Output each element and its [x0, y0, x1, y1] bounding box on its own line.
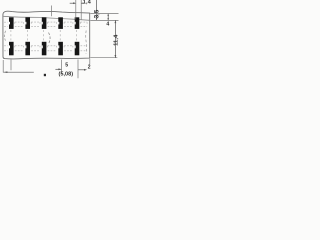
- wire entry P4 bottom (black): [58, 42, 63, 56]
- svg-text:11,4: 11,4: [113, 34, 119, 46]
- svg-text:2: 2: [88, 64, 91, 70]
- hidden cavity dashed box 2-3 bottom: [31, 46, 40, 51]
- svg-text:(5,08): (5,08): [59, 72, 74, 78]
- column centre dashes in gap: [11, 30, 77, 41]
- dim 11,4 line and arrows: [115, 20, 117, 57]
- wire entry P2 bottom (black): [25, 42, 30, 56]
- hidden centre contour arc: [49, 33, 51, 44]
- wire entry P2 top (black): [25, 17, 30, 29]
- hidden cavity dashed box 2-3 top: [31, 22, 40, 27]
- extension line right step: [90, 19, 118, 21]
- extension line right bottom: [90, 57, 117, 59]
- hidden cavity dashed box 1-2 bottom: [15, 46, 24, 51]
- body inner step line: [3, 16, 90, 20]
- hidden left contour arc: [4, 31, 5, 41]
- wire entry P5 bottom (black): [75, 42, 80, 56]
- dim 5,08 extension line pole 5 centre: [77, 60, 79, 79]
- extension line pole 1 centre: [10, 60, 12, 71]
- svg-text:5: 5: [65, 63, 68, 69]
- hidden cavity dashed box 3-4 bottom: [48, 46, 57, 51]
- hidden cavity dashed box 3-4 top: [48, 22, 57, 27]
- wire entry P5 top (black): [75, 17, 80, 29]
- wire entry P3 top (black): [42, 17, 47, 29]
- bottom-left dim line with arrow: [3, 71, 33, 73]
- wire entry P3 bottom (black): [42, 42, 47, 56]
- dim 1,4 extension line left: [75, 0, 77, 20]
- hidden cavity dashed box 4-5 bottom: [64, 46, 73, 51]
- extension line body left edge: [2, 60, 4, 73]
- dim 2 line and arrow: [78, 69, 87, 71]
- svg-text:4: 4: [106, 22, 109, 28]
- wire entry P1 bottom (black): [9, 42, 14, 56]
- wire entry P4 top (black): [58, 17, 63, 29]
- dim 5 (5,08) line and arrows: [55, 68, 61, 70]
- hidden cavity dashed box 1-2 top: [15, 22, 24, 27]
- dim 1,4 line and arrow: [70, 2, 84, 4]
- svg-text:1,4: 1,4: [83, 0, 91, 6]
- small arrow mark mid-bottom: [44, 74, 46, 76]
- hidden cavity dashes left of pole 1: [4, 22, 7, 51]
- dim 2 extension line: [89, 59, 91, 65]
- hidden right-end dashed contour: [85, 31, 88, 55]
- dim 3,5 line and arrow: [96, 0, 98, 20]
- extension line centre top: [51, 6, 53, 17]
- hidden cavity dashed box right of pole 5: [81, 22, 88, 27]
- dim 4 line and arrows: [107, 14, 109, 21]
- dim 5,08 extension line pole 4 centre: [61, 60, 63, 75]
- extension line right top: [90, 13, 118, 15]
- dim 1,4 extension line right: [80, 0, 82, 20]
- body outline: [3, 11, 90, 59]
- wire entry P1 top (black): [9, 17, 14, 29]
- hidden cavity dashes right bottom: [81, 46, 88, 51]
- hidden cavity dashed box 4-5 top: [64, 22, 73, 27]
